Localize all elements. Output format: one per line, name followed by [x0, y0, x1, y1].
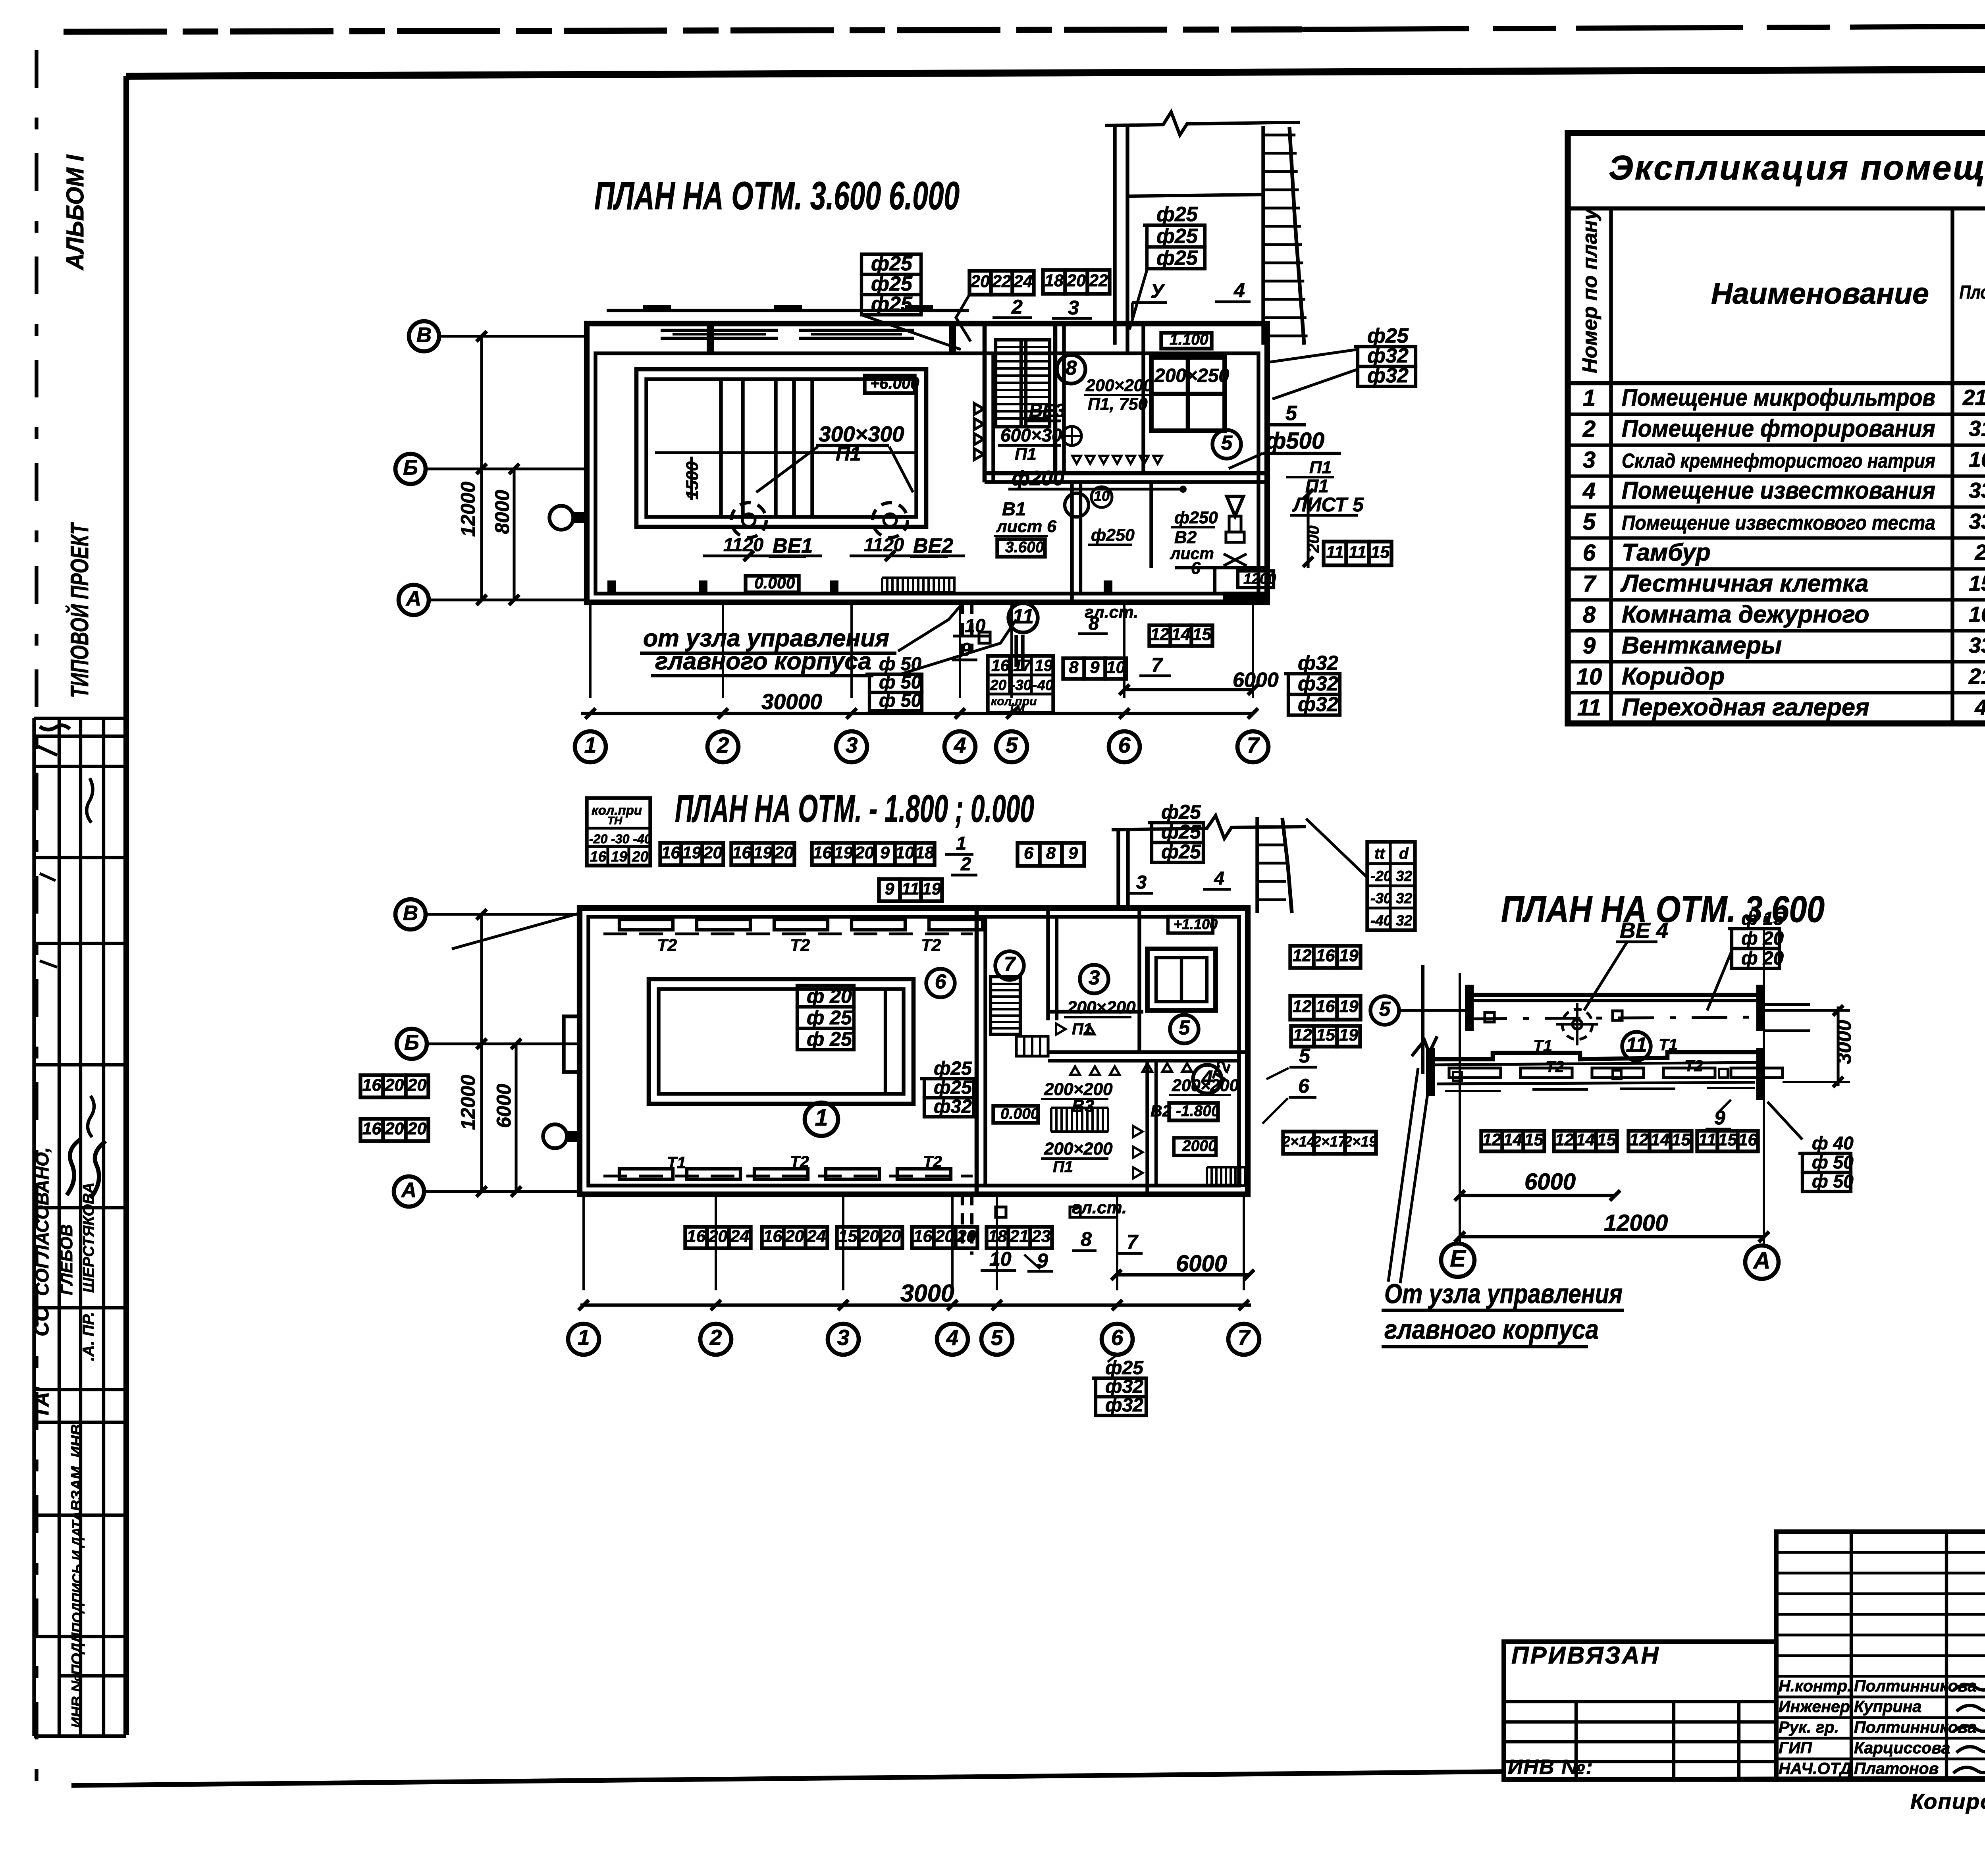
- svg-text:8: 8: [1066, 357, 1077, 379]
- plan3 axis A circle: [1745, 1246, 1779, 1279]
- plan1 pipe stack f25 f32 right: [1354, 345, 1416, 348]
- plan1 circle10: [1091, 487, 1112, 507]
- svg-text:3: 3: [846, 733, 858, 758]
- plan2 triangles right column: [1133, 1126, 1143, 1137]
- svg-text:33.10: 33.10: [1969, 633, 1985, 657]
- svg-text:ф 20: ф 20: [1741, 927, 1784, 949]
- svg-text:4: 4: [1214, 868, 1224, 889]
- svg-text:ф25: ф25: [1156, 247, 1198, 270]
- svg-text:3000: 3000: [1833, 1020, 1855, 1064]
- plan2 left dim 12000: [480, 914, 483, 1192]
- plan1 circle 11 below: [1008, 603, 1038, 632]
- plan2 left dim 6000: [515, 1044, 517, 1192]
- plan2 left boxes 16 20 20: [360, 1075, 383, 1097]
- plan1 box 12 14 15: [1149, 625, 1170, 646]
- svg-text:Рук. гр.: Рук. гр.: [1779, 1718, 1839, 1736]
- svg-text:20: 20: [990, 677, 1007, 693]
- svg-text:3: 3: [1068, 297, 1079, 319]
- svg-text:3: 3: [1583, 447, 1596, 473]
- svg-text:ф32: ф32: [1367, 364, 1409, 387]
- svg-text:19: 19: [754, 843, 773, 862]
- svg-text:6000: 6000: [1524, 1169, 1576, 1195]
- svg-text:32: 32: [1396, 868, 1413, 884]
- svg-text:ГИП: ГИП: [1779, 1739, 1813, 1757]
- svg-text:16.00: 16.00: [1969, 602, 1985, 627]
- plan2 room1 circle: [805, 1103, 838, 1136]
- svg-text:В: В: [403, 901, 418, 925]
- svg-text:Венткамеры: Венткамеры: [1622, 632, 1782, 659]
- plan2 axis A circle: [394, 1176, 424, 1207]
- plan1 axis Bb circle: [395, 454, 426, 484]
- svg-text:Экспликация помещений: Экспликация помещений: [1609, 149, 1985, 187]
- svg-text:20: 20: [708, 1227, 728, 1246]
- svg-text:216.00: 216.00: [1962, 385, 1985, 410]
- svg-text:НАЧ.ОТД: НАЧ.ОТД: [1779, 1759, 1852, 1778]
- svg-text:А: А: [405, 587, 421, 610]
- sheet top broken line: [64, 29, 1302, 32]
- svg-text:2×17: 2×17: [1312, 1133, 1347, 1149]
- plan1 box 18 20 22: [1043, 270, 1065, 294]
- plan1 leader from node text: [898, 605, 961, 651]
- svg-text:6: 6: [1583, 540, 1596, 566]
- svg-text:32: 32: [1396, 890, 1413, 906]
- plan2 axis circles row: [568, 1324, 599, 1355]
- plan1 axis circles row: [575, 731, 606, 762]
- svg-text:Куприна: Куприна: [1854, 1697, 1921, 1716]
- svg-text:-20 -30 -40: -20 -30 -40: [589, 832, 651, 846]
- plan2 level 0.000 box: [993, 1106, 1038, 1123]
- svg-text:32: 32: [1396, 912, 1413, 929]
- svg-text:ф32: ф32: [1105, 1376, 1143, 1397]
- svg-text:Б: Б: [404, 1031, 419, 1054]
- plan1 top wall piers: [707, 325, 714, 353]
- plan3 upper band walls: [1469, 993, 1757, 997]
- svg-text:22: 22: [992, 272, 1011, 291]
- svg-text:2000: 2000: [1182, 1138, 1217, 1155]
- svg-text:Номер по плану: Номер по плану: [1578, 208, 1601, 373]
- svg-text:ф500: ф500: [1266, 428, 1324, 454]
- svg-text:главного корпуса: главного корпуса: [1384, 1314, 1599, 1345]
- plan1 left dim line 8000: [513, 469, 515, 600]
- svg-text:Т2: Т2: [921, 936, 941, 955]
- svg-text:гл.ст.: гл.ст.: [1085, 603, 1138, 622]
- plan1 outer walls: [587, 324, 1267, 602]
- svg-text:20: 20: [407, 1119, 427, 1138]
- plan2 left entrance bump: [564, 1016, 580, 1072]
- plan3 lower band radiators: [1449, 1068, 1501, 1078]
- plan1 box 20 22 24: [969, 271, 991, 295]
- plan1 left wall pump: [549, 506, 573, 530]
- svg-text:16: 16: [913, 1227, 933, 1246]
- plan1 pipe stack f25 mid: [1143, 224, 1205, 227]
- svg-text:ВЕ1: ВЕ1: [773, 534, 813, 557]
- svg-text:10: 10: [895, 843, 914, 862]
- svg-text:ф 40: ф 40: [1812, 1133, 1854, 1153]
- svg-text:20: 20: [882, 1227, 901, 1246]
- svg-text:.А. ПР.: .А. ПР.: [80, 1312, 97, 1361]
- svg-text:-40: -40: [1370, 912, 1392, 929]
- svg-text:главного корпуса: главного корпуса: [655, 648, 871, 675]
- svg-text:2×19: 2×19: [1343, 1133, 1377, 1149]
- svg-text:11: 11: [1626, 1033, 1647, 1056]
- svg-text:ИНВ №:: ИНВ №:: [1508, 1756, 1594, 1779]
- plan3 leader to ttd table: [1306, 819, 1367, 877]
- plan1 leader 300x300: [756, 447, 913, 492]
- svg-text:31.00: 31.00: [1969, 416, 1985, 441]
- plan3 right connection lines: [1765, 1003, 1810, 1006]
- svg-text:Платонов: Платонов: [1854, 1759, 1939, 1778]
- plan2 grating B3: [1051, 1107, 1108, 1109]
- svg-text:11: 11: [1012, 605, 1034, 628]
- plan3 room11 circle: [1622, 1032, 1651, 1060]
- svg-text:Помещение известкового теста: Помещение известкового теста: [1622, 511, 1935, 534]
- svg-text:19: 19: [1339, 997, 1359, 1016]
- svg-text:12: 12: [1293, 1026, 1312, 1045]
- left margin pencil marks top cells: [40, 725, 70, 730]
- plan2 triangles room4: [1070, 1066, 1080, 1075]
- plan1 box 11 11 15: [1324, 542, 1346, 565]
- svg-text:1: 1: [956, 833, 966, 854]
- svg-text:16: 16: [763, 1227, 783, 1246]
- svg-text:9: 9: [1583, 633, 1596, 659]
- svg-text:ИНВ №ПОДЛ: ИНВ №ПОДЛ: [69, 1632, 85, 1728]
- plan2 room5 window: [1147, 949, 1216, 1010]
- plan1 dashed risers below wall: [961, 602, 964, 659]
- svg-text:14: 14: [1651, 1130, 1670, 1149]
- svg-text:7: 7: [1583, 571, 1597, 597]
- svg-text:15: 15: [1316, 1026, 1336, 1045]
- svg-text:9: 9: [885, 879, 894, 898]
- table header bottom line: [1568, 381, 1985, 386]
- plan2 room5 circle: [1170, 1015, 1199, 1043]
- svg-text:6: 6: [1298, 1075, 1310, 1097]
- svg-text:9: 9: [880, 843, 890, 862]
- svg-text:Карциссова: Карциссова: [1854, 1739, 1950, 1757]
- plan1 gallery strip walls: [1113, 124, 1116, 345]
- svg-text:15: 15: [1193, 625, 1212, 644]
- svg-text:16.00: 16.00: [1969, 447, 1985, 472]
- svg-text:1.100: 1.100: [1170, 331, 1208, 348]
- svg-text:6: 6: [1118, 733, 1131, 758]
- plan1 level 3.600 box: [997, 539, 1045, 557]
- plan2 bottom wall radiators: [619, 1169, 673, 1179]
- svg-text:20: 20: [774, 843, 794, 862]
- plan1 dim 200 right: [1307, 488, 1309, 568]
- plan2 corridor wall: [975, 908, 979, 1194]
- svg-text:12: 12: [1555, 1130, 1574, 1149]
- svg-text:9: 9: [1090, 658, 1100, 677]
- svg-text:22: 22: [1089, 271, 1108, 290]
- sheet frame left vertical: [123, 76, 129, 1735]
- plan1 leader lines below: [898, 619, 1016, 675]
- plan2 room4 circle: [1193, 1065, 1222, 1093]
- svg-text:12: 12: [1293, 997, 1312, 1016]
- svg-text:-30: -30: [1370, 890, 1392, 906]
- svg-text:ф25: ф25: [1156, 225, 1198, 248]
- titleblock privyazan inner lines: [1504, 1700, 1776, 1703]
- left margin table horizontals: [34, 717, 126, 720]
- plan1 room6 small room: [1213, 568, 1216, 594]
- sheet frame top line: [126, 68, 1985, 76]
- svg-text:5: 5: [991, 1325, 1004, 1350]
- plan3 long leader diagonals: [1388, 1068, 1418, 1282]
- plan1 level mark +6.000: [865, 376, 915, 393]
- plan1 small table kol pri: [988, 656, 1053, 713]
- svg-text:Наименование: Наименование: [1711, 277, 1929, 310]
- svg-text:5: 5: [1179, 1016, 1190, 1039]
- svg-text:6: 6: [935, 970, 946, 993]
- svg-text:Т2: Т2: [923, 1153, 942, 1171]
- svg-text:7: 7: [1247, 733, 1260, 758]
- svg-text:19: 19: [922, 879, 941, 898]
- svg-text:300×300: 300×300: [819, 422, 904, 446]
- svg-text:20: 20: [855, 843, 874, 862]
- plan2 bottom boxes row: [685, 1227, 707, 1248]
- svg-text:6000: 6000: [1176, 1251, 1227, 1276]
- plan1 gallery break line: [1105, 112, 1300, 135]
- svg-text:10: 10: [1094, 488, 1110, 504]
- svg-text:20: 20: [785, 1227, 804, 1246]
- svg-text:ф25: ф25: [1161, 801, 1201, 823]
- plan3 boxes 12 16 19: [1290, 946, 1314, 968]
- svg-text:Б: Б: [403, 456, 418, 479]
- plan1 tank mid rail: [655, 451, 916, 454]
- svg-text:20: 20: [385, 1076, 404, 1095]
- svg-text:20: 20: [703, 843, 723, 862]
- svg-text:23: 23: [1031, 1227, 1051, 1246]
- svg-text:15: 15: [1672, 1130, 1691, 1149]
- plan2 heating dashed line bottom: [603, 1174, 973, 1177]
- svg-text:16: 16: [732, 843, 752, 862]
- svg-text:2: 2: [717, 733, 729, 758]
- svg-text:У: У: [1151, 280, 1166, 302]
- svg-text:16: 16: [1316, 946, 1336, 965]
- svg-text:5: 5: [1006, 733, 1018, 758]
- plan1 right wall inner lines: [1141, 324, 1145, 472]
- svg-text:Т2: Т2: [790, 936, 810, 955]
- svg-text:В: В: [416, 323, 432, 347]
- svg-text:600×30: 600×30: [1000, 425, 1062, 445]
- svg-text:43.5: 43.5: [1974, 695, 1985, 719]
- svg-text:16: 16: [590, 848, 607, 865]
- svg-text:-20: -20: [1370, 868, 1392, 884]
- svg-text:4: 4: [1233, 279, 1245, 301]
- plan1 tank partitions: [719, 379, 723, 517]
- plan1 room5 circle: [1212, 430, 1241, 459]
- plan1 axis extension lines: [589, 603, 592, 698]
- svg-text:Переходная галерея: Переходная галерея: [1622, 694, 1869, 721]
- svg-text:-1.800: -1.800: [1176, 1103, 1220, 1120]
- plan1 left dim line 12000: [480, 336, 483, 600]
- plan1 room8 circle: [1057, 355, 1085, 384]
- plan2 staircase: [991, 977, 1020, 1034]
- svg-text:1: 1: [815, 1105, 828, 1131]
- plan3 small wall squares lower: [1453, 1072, 1462, 1081]
- svg-text:ВЗАМ. ИНВ: ВЗАМ. ИНВ: [68, 1424, 85, 1511]
- svg-text:От узла управления: От узла управления: [1384, 1278, 1623, 1309]
- svg-text:1: 1: [1583, 385, 1596, 411]
- svg-text:ф 50: ф 50: [1812, 1152, 1854, 1172]
- plan1 filter tank outer: [636, 369, 926, 527]
- svg-text:11: 11: [902, 879, 919, 898]
- plan2 room7 circle: [995, 951, 1024, 980]
- plan2 grating right bottom: [1207, 1166, 1247, 1168]
- plan2 riser dashed lines below: [961, 1194, 964, 1251]
- svg-text:П1: П1: [1309, 458, 1332, 477]
- plan1 gallery inner line: [1127, 195, 1263, 196]
- plan2 gallery stub walls: [1116, 828, 1120, 908]
- svg-text:20: 20: [385, 1119, 404, 1138]
- plan2 leader top left diagonal: [452, 913, 580, 949]
- svg-text:Склад кремнефтористого натрия: Склад кремнефтористого натрия: [1622, 449, 1935, 472]
- plan1 gallery stair band: [1261, 126, 1265, 345]
- plan2 room3 circle: [1080, 965, 1108, 993]
- svg-text:3: 3: [1136, 871, 1147, 893]
- svg-text:24: 24: [807, 1227, 826, 1246]
- plan3 axis verticals: [1459, 973, 1461, 1244]
- plan2 outer walls: [580, 908, 1248, 1194]
- plan2 level +1.100: [1168, 916, 1213, 933]
- svg-text:+6.000: +6.000: [870, 375, 919, 392]
- svg-text:7: 7: [1004, 953, 1016, 976]
- plan2 small squares below: [996, 1207, 1006, 1217]
- plan2 small table kol pri TN: [587, 798, 650, 866]
- svg-text:ВЕ 4: ВЕ 4: [1620, 918, 1668, 943]
- plan1 mid horizontal wall: [985, 471, 1267, 476]
- svg-text:2: 2: [1582, 416, 1596, 442]
- plan2 level 2000 box: [1174, 1138, 1216, 1155]
- svg-text:ВЕ2: ВЕ2: [913, 534, 953, 557]
- svg-text:Тамбур: Тамбур: [1622, 539, 1711, 566]
- plan1 VE1 mixer: [731, 503, 766, 538]
- svg-text:5: 5: [1221, 432, 1233, 454]
- svg-text:2: 2: [1011, 296, 1023, 318]
- svg-text:П1: П1: [1015, 445, 1037, 464]
- svg-text:8000: 8000: [491, 490, 513, 534]
- svg-text:ПЛАН НА ОТМ. - 1.800 ; 0.000: ПЛАН НА ОТМ. - 1.800 ; 0.000: [675, 787, 1034, 830]
- svg-text:П1: П1: [1053, 1158, 1073, 1176]
- plan1 axis B circle: [409, 321, 439, 351]
- svg-text:лист 6: лист 6: [996, 517, 1057, 536]
- svg-text:12: 12: [1630, 1130, 1649, 1149]
- svg-text:20: 20: [970, 272, 990, 291]
- plan3 boxes row: [1481, 1131, 1502, 1151]
- plan3 axis5 circle: [1370, 996, 1399, 1025]
- svg-text:tt: tt: [1374, 845, 1386, 862]
- svg-text:12000: 12000: [1604, 1210, 1668, 1236]
- plan2 gallery hatch band: [1255, 817, 1259, 913]
- svg-text:ф25: ф25: [934, 1077, 972, 1098]
- svg-text:2: 2: [709, 1325, 722, 1350]
- svg-text:12: 12: [1151, 625, 1170, 644]
- svg-text:Помещение фторирования: Помещение фторирования: [1622, 415, 1935, 442]
- plan2 room4 wall: [1048, 1050, 1248, 1054]
- plan3 tt d table: [1367, 842, 1415, 930]
- svg-text:10: 10: [1576, 664, 1602, 690]
- svg-text:ТА': ТА': [30, 1386, 53, 1419]
- plan1 VE2 mixer: [873, 503, 908, 538]
- plan1 level 1.100 box: [1161, 333, 1212, 349]
- svg-text:ф32: ф32: [934, 1096, 972, 1117]
- svg-text:12000: 12000: [457, 1075, 479, 1130]
- svg-text:19: 19: [1339, 946, 1359, 965]
- svg-text:Помещение микрофильтров: Помещение микрофильтров: [1622, 384, 1935, 411]
- svg-text:0.000: 0.000: [1000, 1105, 1039, 1122]
- svg-text:11: 11: [1326, 543, 1344, 562]
- svg-text:15: 15: [1524, 1130, 1544, 1149]
- plan2 room3 walls: [1046, 908, 1050, 1020]
- plan1 level 1200 box: [1238, 571, 1274, 588]
- svg-text:4: 4: [954, 733, 966, 758]
- svg-text:8: 8: [1046, 844, 1056, 863]
- svg-text:ф 50: ф 50: [1812, 1171, 1854, 1192]
- svg-text:ф25: ф25: [1156, 203, 1198, 226]
- svg-text:3.600: 3.600: [1005, 539, 1044, 556]
- svg-text:АЛЬБОМ I: АЛЬБОМ I: [62, 154, 89, 271]
- plan1 grating band: [882, 576, 956, 579]
- svg-text:ф 20: ф 20: [807, 985, 852, 1007]
- svg-text:ф25: ф25: [871, 293, 913, 316]
- svg-text:16: 16: [813, 843, 833, 862]
- plan2 gallery stub break: [1112, 816, 1306, 839]
- svg-text:ф32: ф32: [1298, 652, 1338, 674]
- svg-text:5: 5: [1379, 998, 1391, 1020]
- svg-text:В1: В1: [1002, 498, 1026, 519]
- svg-text:ТН: ТН: [607, 814, 622, 827]
- plan2 boxes top row: [660, 843, 681, 865]
- svg-text:Инженер: Инженер: [1779, 1697, 1850, 1716]
- plan2 heating dashed line top: [603, 932, 973, 935]
- svg-text:19: 19: [682, 843, 701, 862]
- svg-text:СС: СС: [30, 1306, 53, 1336]
- svg-text:15: 15: [838, 1227, 858, 1246]
- svg-text:6: 6: [1111, 1325, 1124, 1350]
- svg-text:2.90: 2.90: [1974, 540, 1985, 565]
- plan2 pipe stack f25 f32 f32 below: [1092, 1377, 1146, 1380]
- svg-text:-30: -30: [1010, 677, 1032, 693]
- svg-text:9: 9: [1068, 844, 1078, 863]
- svg-text:6: 6: [1024, 844, 1034, 863]
- svg-text:ШЕРСТЯКОВА: ШЕРСТЯКОВА: [80, 1182, 97, 1293]
- plan1 axis A circle: [399, 585, 429, 615]
- plan1 staircase: [996, 340, 1050, 427]
- sheet frame bottom line: [71, 1772, 1504, 1785]
- svg-text:30000: 30000: [761, 689, 822, 714]
- plan1 vent triangles left column: [974, 403, 984, 415]
- plan2 left wall pump: [543, 1124, 567, 1148]
- svg-text:11: 11: [1698, 1130, 1716, 1149]
- svg-text:Площадь: Площадь: [1960, 281, 1985, 303]
- plan1 dim 1120 right: [850, 554, 965, 557]
- svg-text:ф25: ф25: [934, 1058, 972, 1079]
- svg-text:200×250: 200×250: [1154, 365, 1230, 386]
- svg-text:16: 16: [687, 1227, 706, 1246]
- plan2 axis Bb circle: [397, 1029, 427, 1059]
- plan2 top wall radiators: [619, 920, 673, 930]
- svg-text:ф 25: ф 25: [807, 1006, 852, 1029]
- svg-text:Е: Е: [1450, 1246, 1466, 1272]
- svg-text:ф25: ф25: [871, 272, 913, 295]
- plan2 axis extension lines: [582, 1196, 585, 1290]
- left margin table verticals: [32, 718, 36, 1736]
- svg-text:8: 8: [1069, 658, 1079, 677]
- svg-text:ф32: ф32: [1298, 693, 1338, 715]
- titleblock middle grid: [1776, 1532, 1985, 1780]
- svg-text:10: 10: [1106, 658, 1125, 677]
- svg-text:1120: 1120: [864, 534, 904, 555]
- svg-text:ПЛАН НА ОТМ. 3.600 6.000: ПЛАН НА ОТМ. 3.600 6.000: [594, 174, 960, 218]
- svg-text:1120: 1120: [723, 534, 763, 555]
